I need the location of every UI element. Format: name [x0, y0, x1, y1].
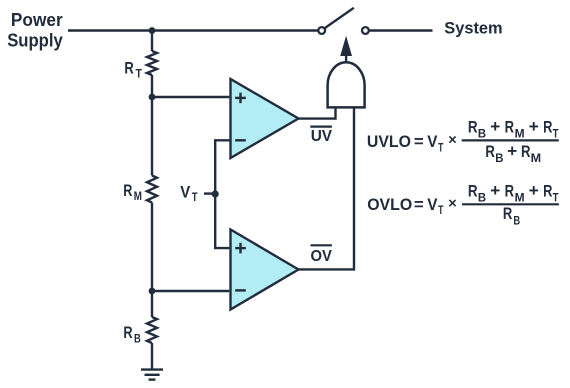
svg-text:R: R	[521, 142, 531, 161]
svg-text:R: R	[123, 323, 132, 342]
svg-text:T: T	[553, 128, 559, 140]
svg-text:R: R	[485, 142, 495, 161]
svg-text:×: ×	[448, 132, 456, 148]
svg-text:B: B	[478, 192, 486, 204]
svg-text:R: R	[505, 117, 514, 136]
svg-text:V: V	[427, 196, 437, 214]
svg-text:UV: UV	[311, 128, 333, 145]
svg-text:R: R	[124, 59, 133, 78]
svg-text:+: +	[490, 181, 500, 200]
svg-text:V: V	[427, 133, 437, 151]
svg-text:+: +	[507, 142, 517, 161]
svg-text:B: B	[495, 153, 503, 165]
svg-text:Supply: Supply	[7, 30, 63, 50]
svg-text:T: T	[192, 192, 198, 204]
svg-text:B: B	[513, 215, 520, 227]
svg-text:R: R	[543, 181, 552, 200]
svg-text:R: R	[468, 181, 478, 200]
svg-text:B: B	[134, 333, 141, 345]
svg-text:+: +	[529, 181, 539, 200]
svg-text:V: V	[180, 182, 191, 201]
svg-text:=: =	[414, 133, 424, 151]
svg-text:+: +	[529, 117, 539, 136]
svg-text:T: T	[438, 205, 443, 217]
svg-text:M: M	[531, 153, 542, 165]
svg-text:R: R	[468, 117, 478, 136]
svg-text:×: ×	[448, 196, 456, 212]
svg-text:System: System	[444, 19, 502, 37]
svg-text:Power: Power	[11, 10, 63, 30]
svg-text:OV: OV	[311, 248, 333, 265]
svg-text:R: R	[123, 181, 132, 200]
svg-text:OVLO: OVLO	[367, 196, 412, 214]
svg-text:M: M	[515, 128, 525, 140]
svg-text:=: =	[414, 196, 424, 214]
svg-text:B: B	[478, 128, 486, 140]
svg-text:T: T	[136, 69, 142, 81]
svg-text:R: R	[503, 204, 512, 223]
svg-text:+: +	[490, 117, 500, 136]
svg-text:M: M	[134, 191, 142, 203]
svg-text:UVLO: UVLO	[367, 133, 411, 151]
svg-text:M: M	[515, 192, 525, 204]
svg-text:T: T	[438, 142, 443, 154]
svg-text:R: R	[505, 181, 514, 200]
svg-text:T: T	[553, 192, 559, 204]
svg-text:R: R	[543, 117, 552, 136]
